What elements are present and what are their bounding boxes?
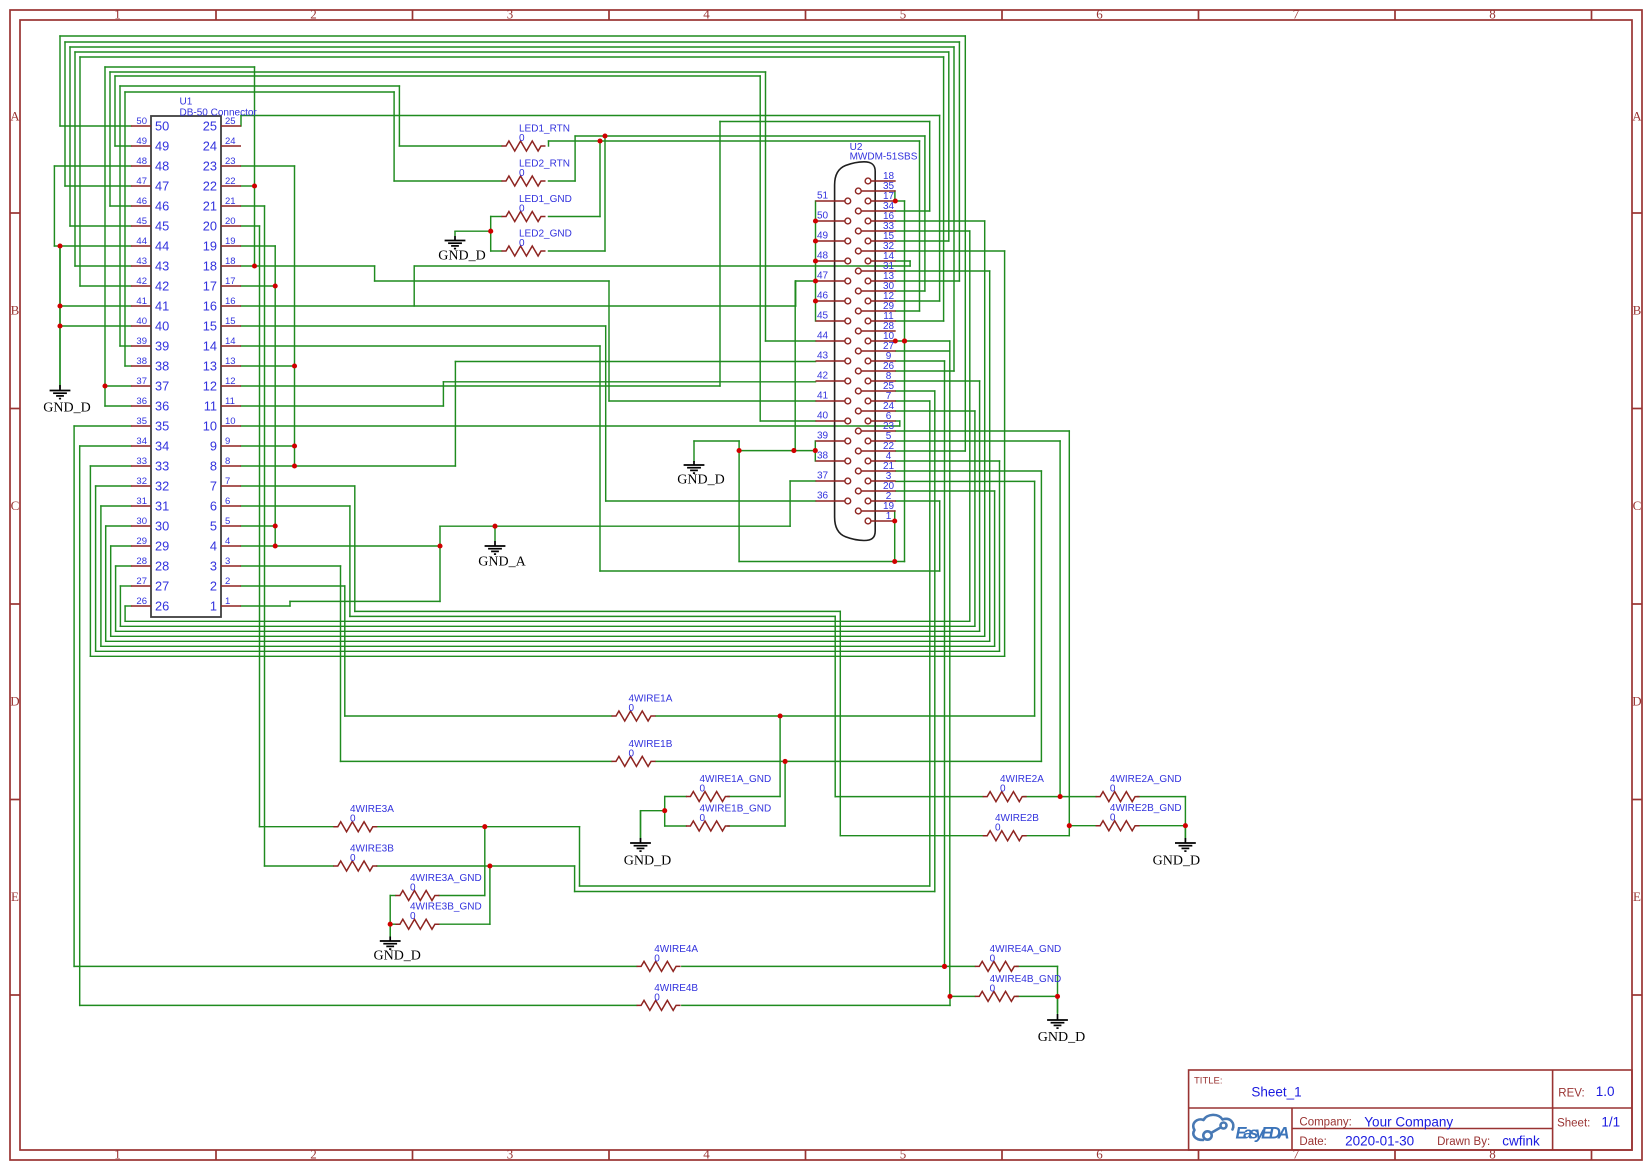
svg-text:7: 7 <box>1293 7 1300 22</box>
svg-text:4: 4 <box>225 536 230 547</box>
wire <box>125 365 131 367</box>
wire <box>241 445 295 447</box>
wire <box>766 340 816 342</box>
U2 pin 23 <box>861 430 896 432</box>
wire <box>241 185 255 187</box>
wire <box>120 585 131 587</box>
connector U2 MWDM-51SBS <box>835 162 876 541</box>
wire <box>720 121 930 123</box>
wire <box>115 145 131 147</box>
U2 pin 49 circle <box>845 238 851 244</box>
U2 pin 9 <box>871 360 896 362</box>
svg-text:29: 29 <box>136 536 147 547</box>
svg-text:6: 6 <box>1096 1147 1103 1162</box>
svg-text:Sheet_1: Sheet_1 <box>1251 1085 1301 1100</box>
svg-text:16: 16 <box>225 296 236 307</box>
U1 pin 6 <box>221 505 241 507</box>
U1 pin 4 <box>221 545 241 547</box>
svg-text:0: 0 <box>654 953 660 964</box>
svg-text:0: 0 <box>519 204 525 215</box>
wire <box>839 611 841 835</box>
wire <box>390 895 395 897</box>
wire <box>116 565 131 567</box>
wire <box>439 895 485 897</box>
wire <box>896 380 980 382</box>
svg-text:MWDM-51SBS: MWDM-51SBS <box>850 152 918 163</box>
svg-text:0: 0 <box>519 168 525 179</box>
U2 pin 8 circle <box>865 378 871 384</box>
U1 pin 23 <box>221 165 241 167</box>
wire <box>896 390 935 392</box>
svg-text:34: 34 <box>155 439 169 454</box>
svg-text:Drawn By:: Drawn By: <box>1437 1136 1490 1148</box>
wire <box>1057 996 1059 1012</box>
wire <box>1068 431 1070 836</box>
U2 pin 22 <box>861 450 896 452</box>
wire <box>895 200 904 202</box>
svg-text:0: 0 <box>1110 813 1116 824</box>
svg-text:LED1_RTN: LED1_RTN <box>519 124 570 135</box>
U2 pin 19 <box>861 510 896 512</box>
wire <box>439 526 441 601</box>
U2 pin 10 circle <box>865 338 871 344</box>
U2 pin 31 circle <box>855 268 861 274</box>
svg-text:17: 17 <box>225 276 236 287</box>
wire <box>105 385 131 387</box>
svg-text:11: 11 <box>225 396 235 407</box>
wire <box>65 41 959 43</box>
resistor LED1_GND <box>502 212 546 222</box>
svg-text:49: 49 <box>155 139 169 154</box>
junction <box>597 138 602 143</box>
svg-text:26: 26 <box>136 596 147 607</box>
U2 pin 43 circle <box>845 358 851 364</box>
wire <box>896 250 1005 252</box>
wire <box>958 42 960 281</box>
U1 pin 18 <box>221 265 241 267</box>
junction <box>57 323 62 328</box>
svg-text:GND_D: GND_D <box>1038 1030 1085 1045</box>
U2 pin 5 <box>871 440 896 442</box>
svg-text:30: 30 <box>155 519 169 534</box>
wire <box>896 350 950 352</box>
junction <box>57 303 62 308</box>
svg-text:0: 0 <box>700 813 706 824</box>
svg-text:C: C <box>11 498 20 513</box>
wire <box>789 481 791 526</box>
svg-text:13: 13 <box>203 359 217 374</box>
svg-text:27: 27 <box>155 579 169 594</box>
wire <box>939 116 941 302</box>
svg-text:D: D <box>1632 694 1641 709</box>
wire <box>549 140 920 142</box>
U1 pin 34 <box>131 445 151 447</box>
U2 pin 3 <box>871 480 896 482</box>
wire <box>64 42 66 186</box>
wire <box>896 430 1070 432</box>
U1 pin 26 <box>131 605 151 607</box>
U2 pin 13 <box>871 280 896 282</box>
U1 pin 29 <box>131 545 151 547</box>
svg-text:0: 0 <box>990 953 996 964</box>
wire <box>1004 251 1006 656</box>
wire <box>1017 965 1058 967</box>
wire <box>739 450 815 452</box>
junction <box>292 443 297 448</box>
wire <box>90 465 131 467</box>
svg-text:17: 17 <box>203 279 217 294</box>
wire <box>896 370 954 372</box>
U1 pin 8 <box>221 465 241 467</box>
resistor LED1_RTN <box>502 141 546 151</box>
svg-text:4WIRE2A_GND: 4WIRE2A_GND <box>1110 774 1182 785</box>
U2 pin 26 circle <box>855 368 861 374</box>
wire <box>105 66 255 68</box>
U2 pin 30 <box>861 290 896 292</box>
wire <box>896 230 970 232</box>
U2 pin 15 <box>871 240 896 242</box>
wire <box>574 866 576 892</box>
junction <box>778 713 783 718</box>
resistor LED2_RTN <box>502 176 546 186</box>
ground GND_D <box>454 231 456 236</box>
U2 pin 21 circle <box>855 468 861 474</box>
svg-text:6: 6 <box>225 496 230 507</box>
svg-text:47: 47 <box>817 271 829 282</box>
wire <box>896 500 940 502</box>
svg-text:25: 25 <box>203 119 217 134</box>
U1 pin 37 <box>131 385 151 387</box>
wire <box>393 92 395 181</box>
wire <box>765 72 767 341</box>
svg-text:16: 16 <box>203 299 217 314</box>
svg-text:41: 41 <box>155 299 169 314</box>
wire <box>60 245 131 247</box>
svg-text:7: 7 <box>1293 1147 1300 1162</box>
svg-text:45: 45 <box>155 219 169 234</box>
junction <box>662 808 667 813</box>
U1 pin 14 <box>221 345 241 347</box>
resistor 4WIRE1A <box>612 711 656 721</box>
U1 pin 32 <box>131 485 151 487</box>
junction <box>492 524 497 529</box>
svg-text:18: 18 <box>225 256 236 267</box>
junction <box>737 448 742 453</box>
U1 pin 21 <box>221 205 241 207</box>
U2 pin 11 <box>871 320 896 322</box>
junction <box>892 559 897 564</box>
svg-text:45: 45 <box>817 311 829 322</box>
junction <box>893 338 898 343</box>
U1 pin 16 <box>221 305 241 307</box>
junction <box>273 523 278 528</box>
wire <box>896 460 1000 462</box>
wire <box>969 231 971 621</box>
wire <box>693 441 695 461</box>
svg-text:23: 23 <box>225 156 236 167</box>
U2 pin 38 circle <box>845 458 851 464</box>
wire <box>241 325 606 327</box>
U2 pin 20 <box>861 490 896 492</box>
wire <box>120 625 975 627</box>
wire <box>116 630 980 632</box>
resistor 4WIRE1B_GND <box>686 821 730 831</box>
svg-text:29: 29 <box>155 539 169 554</box>
resistor LED2_GND <box>502 246 546 256</box>
wire <box>455 361 815 363</box>
wire <box>948 52 950 241</box>
svg-text:33: 33 <box>136 456 147 467</box>
wire <box>579 827 581 886</box>
U2 pin 21 <box>861 470 896 472</box>
wire <box>65 185 131 187</box>
svg-text:45: 45 <box>136 216 147 227</box>
junction <box>813 218 818 223</box>
U1 pin 47 <box>131 185 151 187</box>
svg-text:4WIRE4B_GND: 4WIRE4B_GND <box>990 974 1062 985</box>
wire <box>909 261 911 266</box>
wire <box>1059 441 1061 797</box>
resistor 4WIRE3B_GND <box>395 919 439 929</box>
U1 pin 33 <box>131 465 151 467</box>
wire <box>73 426 75 966</box>
wire <box>984 221 986 636</box>
wire <box>895 340 950 342</box>
svg-text:32: 32 <box>136 476 147 487</box>
svg-text:0: 0 <box>350 853 356 864</box>
U2 pin 34 <box>861 210 896 212</box>
svg-text:11: 11 <box>204 399 217 414</box>
wire <box>953 47 955 371</box>
U2 pin 36 circle <box>845 498 851 504</box>
svg-text:14: 14 <box>225 336 236 347</box>
svg-text:LED2_GND: LED2_GND <box>519 229 572 240</box>
wire <box>580 885 930 887</box>
junction <box>292 363 297 368</box>
wire <box>241 465 455 467</box>
svg-text:D: D <box>10 694 19 709</box>
wire <box>694 440 739 442</box>
junction <box>388 922 393 927</box>
wire <box>896 480 1035 482</box>
wire <box>760 420 815 422</box>
svg-text:5: 5 <box>225 516 230 527</box>
svg-text:4WIRE1A: 4WIRE1A <box>629 694 673 705</box>
svg-text:36: 36 <box>155 399 169 414</box>
wire <box>106 640 990 642</box>
wire <box>111 635 985 637</box>
wire <box>53 166 55 246</box>
wire <box>599 346 601 571</box>
U2 pin 22 circle <box>855 448 861 454</box>
U2 pin 27 <box>861 350 896 352</box>
wire <box>896 280 960 282</box>
wire <box>69 47 71 226</box>
svg-text:40: 40 <box>817 411 829 422</box>
svg-text:30: 30 <box>136 516 147 527</box>
U1 pin 5 <box>221 525 241 527</box>
svg-text:REV:: REV: <box>1558 1087 1584 1099</box>
svg-text:35: 35 <box>155 419 169 434</box>
wire <box>1034 481 1036 716</box>
wire <box>439 923 490 925</box>
svg-text:20: 20 <box>203 219 217 234</box>
svg-text:33: 33 <box>155 459 169 474</box>
U2 pin 42 <box>816 380 846 382</box>
wire <box>1040 471 1042 761</box>
svg-text:48: 48 <box>817 251 829 262</box>
wire <box>414 265 910 267</box>
wire <box>899 421 901 426</box>
junction <box>1067 823 1072 828</box>
wire <box>489 866 491 924</box>
wire <box>241 525 275 527</box>
svg-text:LED1_GND: LED1_GND <box>519 194 572 205</box>
svg-text:42: 42 <box>155 279 169 294</box>
U2 pin 2 <box>871 500 896 502</box>
U2 pin 14 <box>871 260 896 262</box>
U2 pin 13 circle <box>865 278 871 284</box>
U2 pin 4 <box>871 460 896 462</box>
wire <box>350 615 835 617</box>
wire <box>738 441 740 562</box>
svg-text:4WIRE4A: 4WIRE4A <box>654 944 698 955</box>
wire <box>354 486 356 611</box>
svg-text:24: 24 <box>203 139 217 154</box>
junction <box>1058 794 1063 799</box>
wire <box>241 365 295 367</box>
svg-text:38: 38 <box>136 356 147 367</box>
svg-text:23: 23 <box>203 159 217 174</box>
wire <box>484 827 486 896</box>
wire <box>79 57 81 286</box>
svg-text:42: 42 <box>817 371 829 382</box>
svg-text:A: A <box>10 109 20 124</box>
wire <box>600 570 940 572</box>
svg-text:50: 50 <box>155 119 169 134</box>
svg-text:7: 7 <box>210 479 217 494</box>
U2 pin 28 circle <box>855 328 861 334</box>
wire <box>1057 966 1059 996</box>
U2 pin 20 circle <box>855 488 861 494</box>
wire <box>1017 995 1058 997</box>
wire <box>59 36 61 126</box>
wire <box>491 250 502 252</box>
junction <box>947 994 952 999</box>
U2 pin 35 circle <box>855 188 861 194</box>
wire <box>974 411 976 626</box>
wire <box>608 281 610 401</box>
U2 pin 24 circle <box>855 408 861 414</box>
U1 pin 38 <box>131 365 151 367</box>
svg-text:38: 38 <box>817 451 829 462</box>
U2 pin 33 circle <box>855 228 861 234</box>
wire <box>989 271 991 641</box>
wire <box>124 92 126 366</box>
wire <box>599 141 601 217</box>
U2 pin 51 <box>816 200 846 202</box>
wire <box>896 470 1042 472</box>
wire <box>640 811 642 840</box>
wire <box>355 610 841 612</box>
svg-text:37: 37 <box>155 379 169 394</box>
svg-text:Sheet:: Sheet: <box>1557 1118 1590 1130</box>
svg-text:8: 8 <box>1489 1147 1496 1162</box>
junction <box>57 243 62 248</box>
U2 pin 23 circle <box>855 428 861 434</box>
EasyEDA logo <box>1193 1115 1233 1140</box>
U2 pin 39 <box>816 440 846 442</box>
wire <box>605 326 607 501</box>
wire <box>60 325 131 327</box>
U2 pin 16 circle <box>865 218 871 224</box>
wire <box>375 280 609 282</box>
wire <box>999 461 1001 651</box>
svg-text:39: 39 <box>155 339 169 354</box>
U2 pin 32 <box>861 250 896 252</box>
wire <box>241 485 355 487</box>
wire <box>609 400 816 402</box>
wire <box>241 605 290 607</box>
junction <box>783 759 788 764</box>
svg-text:50: 50 <box>136 116 147 127</box>
svg-text:46: 46 <box>136 196 147 207</box>
svg-text:GND_D: GND_D <box>1153 854 1200 869</box>
wire <box>80 1004 637 1006</box>
wire <box>896 440 1060 442</box>
wire <box>377 826 580 828</box>
wire <box>90 655 1004 657</box>
wire <box>919 141 921 311</box>
svg-text:37: 37 <box>817 471 829 482</box>
svg-text:48: 48 <box>155 159 169 174</box>
U1 pin 15 <box>221 325 241 327</box>
wire <box>241 505 350 507</box>
U1 pin 1 <box>221 605 241 607</box>
wire <box>896 360 945 362</box>
wire <box>340 566 342 761</box>
svg-text:GND_D: GND_D <box>677 473 724 488</box>
svg-text:51: 51 <box>817 191 829 202</box>
U2 pin 46 <box>816 300 846 302</box>
U2 pin 43 <box>816 360 846 362</box>
U1 pin 50 <box>131 125 151 127</box>
svg-text:12: 12 <box>203 379 217 394</box>
junction <box>487 863 492 868</box>
U2 pin 17 circle <box>865 198 871 204</box>
wire <box>665 796 687 798</box>
svg-text:31: 31 <box>155 499 169 514</box>
wire <box>413 266 415 306</box>
wire <box>389 896 391 941</box>
junction <box>813 238 818 243</box>
svg-text:0: 0 <box>350 814 356 825</box>
U2 pin 9 circle <box>865 358 871 364</box>
svg-text:28: 28 <box>155 559 169 574</box>
wire <box>241 165 295 167</box>
wire <box>241 285 275 287</box>
U2 pin 50 <box>816 220 846 222</box>
junction <box>813 298 818 303</box>
resistor 4WIRE4A_GND <box>975 961 1019 971</box>
svg-text:4WIRE2A: 4WIRE2A <box>1000 774 1044 785</box>
wire <box>896 410 975 412</box>
wire <box>119 586 121 626</box>
resistor 4WIRE1A_GND <box>686 792 730 802</box>
wire <box>606 500 816 502</box>
resistor 4WIRE3B <box>333 861 377 871</box>
svg-text:46: 46 <box>155 199 169 214</box>
